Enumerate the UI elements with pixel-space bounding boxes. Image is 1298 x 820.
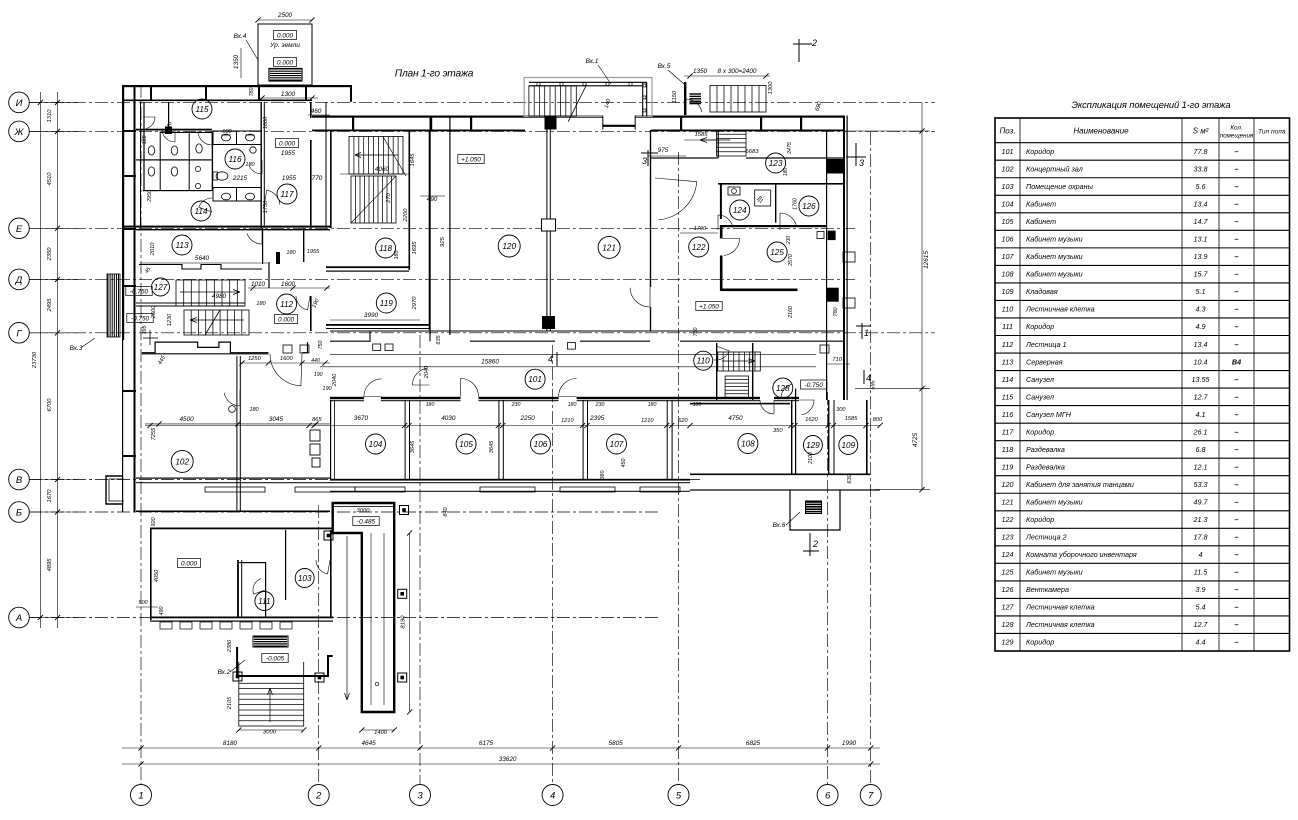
svg-text:4725: 4725	[912, 432, 919, 447]
svg-text:Вх.3: Вх.3	[70, 345, 83, 352]
svg-text:2500: 2500	[151, 305, 157, 319]
svg-text:В: В	[16, 475, 23, 486]
diagonal break	[205, 310, 220, 335]
svg-text:0.000: 0.000	[279, 141, 295, 148]
pier black	[165, 127, 172, 135]
svg-text:15.7: 15.7	[1194, 270, 1209, 279]
svg-text:180: 180	[256, 301, 266, 307]
svg-text:-0.485: -0.485	[357, 519, 376, 526]
divider top column	[545, 116, 557, 130]
svg-text:2100: 2100	[808, 452, 814, 465]
left wall	[150, 528, 152, 621]
svg-text:1600: 1600	[281, 281, 296, 288]
bottom dim chain row2	[122, 763, 880, 765]
door arc 110	[714, 346, 730, 360]
svg-text:–: –	[1235, 480, 1239, 489]
pilasters on top wall	[150, 85, 152, 101]
room 102 left wall (exterior)	[134, 340, 136, 512]
left exterior wall	[122, 85, 124, 340]
divider 106/107	[583, 400, 584, 479]
door arc corridor 101 c	[559, 379, 577, 397]
svg-text:460: 460	[311, 108, 322, 115]
svg-text:595: 595	[871, 379, 877, 389]
halls bottom wall band with steps	[330, 331, 816, 341]
svg-text:1790: 1790	[694, 226, 707, 232]
svg-text:124: 124	[1002, 550, 1014, 559]
svg-text:15860: 15860	[481, 359, 499, 366]
svg-text:0.000: 0.000	[277, 60, 293, 67]
dims 1010/1600	[248, 287, 330, 289]
level -0.750 box	[801, 380, 827, 389]
svg-text:113: 113	[1002, 357, 1013, 366]
svg-text:3645: 3645	[489, 440, 495, 453]
svg-text:–: –	[1235, 235, 1239, 244]
room circle 119	[376, 293, 396, 313]
svg-text:8190: 8190	[401, 615, 407, 629]
wall from 111 to stair	[237, 647, 333, 676]
room 101 circle	[525, 369, 545, 389]
axis line И	[29, 101, 935, 103]
axis line 2	[318, 505, 320, 784]
ramp top landing lines	[333, 505, 394, 508]
svg-text:116: 116	[1002, 410, 1013, 419]
axis line 6	[827, 392, 829, 784]
divider mid box	[542, 219, 556, 231]
classroom windows bottom	[205, 487, 265, 492]
svg-text:270: 270	[386, 192, 392, 203]
svg-text:925: 925	[440, 236, 446, 246]
svg-text:104: 104	[1002, 200, 1014, 209]
corridor bottom wall (classroom top)	[330, 397, 820, 399]
svg-text:4.9: 4.9	[1196, 322, 1206, 331]
room 112 circle	[277, 294, 297, 314]
svg-text:Вх.1: Вх.1	[586, 58, 599, 65]
svg-text:12.1: 12.1	[1194, 462, 1208, 471]
svg-text:6.8: 6.8	[1196, 445, 1206, 454]
svg-text:Поз.: Поз.	[999, 127, 1015, 136]
room 122 circle	[689, 237, 709, 257]
svg-text:5.1: 5.1	[1196, 287, 1206, 296]
stall partition horizontals	[136, 159, 212, 160]
single WC in 116	[216, 172, 228, 180]
svg-text:13.4: 13.4	[1194, 200, 1208, 209]
svg-text:4: 4	[550, 791, 555, 802]
svg-text:2: 2	[811, 38, 817, 48]
svg-text:115: 115	[1002, 392, 1014, 401]
svg-text:–: –	[1235, 620, 1239, 629]
svg-text:Ж: Ж	[14, 127, 25, 138]
Вх.5 entrance mat	[690, 94, 702, 104]
door arc 103	[316, 560, 330, 574]
svg-text:4.1: 4.1	[1196, 410, 1206, 419]
room 111 circle	[255, 592, 274, 611]
classroom top wall door openings (white gaps)	[364, 396, 381, 402]
svg-text:1750: 1750	[263, 200, 269, 213]
svg-text:2570: 2570	[788, 254, 794, 267]
svg-text:Лестничная клетка: Лестничная клетка	[1025, 603, 1095, 612]
svg-text:109: 109	[1002, 287, 1014, 296]
room 126 circle	[799, 196, 819, 216]
svg-text:Кабинет музыки: Кабинет музыки	[1026, 252, 1083, 261]
svg-text:123: 123	[769, 159, 783, 168]
svg-text:112: 112	[280, 300, 293, 309]
svg-text:101: 101	[528, 375, 542, 384]
svg-text:1760: 1760	[793, 198, 799, 210]
svg-text:1955: 1955	[281, 150, 296, 157]
Вх.6 porch walls	[790, 490, 840, 530]
stair Вх.2 treads	[239, 683, 304, 726]
walls around 112	[268, 262, 269, 288]
svg-text:102: 102	[175, 457, 189, 466]
svg-text:2040: 2040	[332, 373, 338, 387]
section mark 4 mid	[556, 352, 558, 366]
svg-text:Ур. земли: Ур. земли	[269, 42, 300, 49]
svg-text:3: 3	[859, 158, 864, 168]
svg-text:180: 180	[245, 162, 255, 168]
svg-text:План 1-го этажа: План 1-го этажа	[395, 69, 474, 80]
toilet room partitions vertical	[143, 102, 144, 191]
sink in 116	[250, 147, 256, 153]
svg-text:11.5: 11.5	[1194, 568, 1208, 577]
axis line Б	[29, 511, 660, 513]
svg-text:230: 230	[786, 236, 792, 246]
axis line Д	[29, 278, 855, 280]
svg-text:В4: В4	[1232, 357, 1241, 366]
wall 124/126 divider	[775, 183, 776, 223]
svg-text:+1.050: +1.050	[461, 157, 481, 164]
svg-text:1955: 1955	[307, 249, 320, 255]
pilasters central top wall	[352, 116, 354, 130]
svg-text:13.55: 13.55	[1192, 375, 1211, 384]
svg-text:Вх.2: Вх.2	[218, 669, 231, 676]
wall right of 113	[262, 228, 263, 264]
level -0.750 box 2	[127, 314, 153, 323]
svg-text:17.8: 17.8	[1194, 533, 1208, 542]
svg-text:Кабинет для занятия танцами: Кабинет для занятия танцами	[1026, 480, 1134, 489]
wall under room 115 (axis Ж)	[136, 129, 212, 131]
shaft boxes right of 102	[310, 430, 320, 441]
svg-text:3645: 3645	[410, 440, 416, 453]
arrow lower flight	[190, 319, 244, 321]
room 119 bottom wall	[326, 324, 430, 326]
svg-text:1250: 1250	[248, 356, 262, 362]
svg-text:–: –	[1235, 340, 1239, 349]
hall left wall	[430, 116, 431, 336]
svg-text:S м²: S м²	[1193, 127, 1209, 136]
bottom wall ticks (windows)	[160, 622, 172, 629]
Вх.5 left wall	[684, 82, 686, 115]
svg-text:–: –	[1235, 568, 1239, 577]
svg-text:2950: 2950	[147, 190, 153, 203]
door arc 125	[723, 239, 740, 256]
right strip boxes	[843, 252, 855, 262]
svg-text:–: –	[1235, 200, 1239, 209]
section mark 3 right	[855, 143, 857, 166]
svg-text:3045: 3045	[269, 416, 284, 423]
svg-text:395: 395	[142, 326, 148, 335]
block top wall (y527)	[150, 528, 333, 530]
svg-text:6: 6	[825, 791, 831, 802]
svg-text:6683: 6683	[746, 149, 760, 155]
level box 0.000 inner	[274, 58, 297, 67]
svg-text:Г: Г	[16, 328, 22, 339]
svg-text:124: 124	[733, 206, 747, 215]
top wall of central block	[312, 116, 843, 118]
svg-text:2105: 2105	[227, 696, 233, 710]
svg-text:–: –	[1235, 550, 1239, 559]
svg-text:630: 630	[847, 473, 853, 483]
bottom dim chain row1	[122, 747, 880, 749]
room 104 left wall	[330, 400, 331, 479]
svg-text:1400: 1400	[374, 730, 388, 736]
svg-text:490: 490	[159, 607, 165, 616]
svg-text:7: 7	[868, 791, 874, 802]
svg-text:2: 2	[315, 791, 322, 802]
svg-text:–: –	[1235, 182, 1239, 191]
svg-text:0.000: 0.000	[278, 317, 294, 324]
svg-text:–: –	[1235, 305, 1239, 314]
room 128 circle	[773, 378, 793, 398]
axis line Е	[29, 227, 855, 229]
porch entrance mat hatch	[270, 69, 301, 80]
axis line 1	[140, 85, 142, 784]
svg-text:128: 128	[776, 384, 790, 393]
svg-text:4645: 4645	[361, 740, 376, 747]
ramp arrows	[346, 536, 348, 700]
svg-text:Наименование: Наименование	[1073, 127, 1129, 136]
left wall pilasters	[122, 130, 136, 132]
divider bottom column	[542, 316, 555, 329]
svg-text:Вх.6: Вх.6	[773, 522, 786, 529]
room 103 circle	[295, 569, 314, 588]
svg-text:–: –	[1235, 147, 1239, 156]
svg-text:–: –	[1235, 270, 1239, 279]
svg-text:105: 105	[1002, 217, 1015, 226]
door arc 111	[253, 579, 265, 594]
svg-text:–: –	[1235, 164, 1239, 173]
svg-text:4510: 4510	[47, 172, 53, 186]
svg-text:122: 122	[1002, 515, 1014, 524]
left chain extension lines	[29, 101, 78, 103]
wall stub 124 left	[720, 183, 722, 219]
svg-text:Лестничная клетка: Лестничная клетка	[1025, 620, 1095, 629]
svg-text:113: 113	[175, 241, 188, 250]
inner wall x=826 right strip	[826, 130, 827, 400]
porch Вх.1 railing right band	[642, 82, 644, 116]
level -0.750 box 1	[126, 287, 152, 296]
svg-text:106: 106	[534, 440, 548, 449]
svg-text:118: 118	[379, 244, 392, 253]
toilets in room 114 left	[148, 146, 154, 155]
svg-text:105: 105	[459, 440, 473, 449]
svg-text:800: 800	[873, 417, 883, 423]
svg-text:Раздевалка: Раздевалка	[1026, 462, 1065, 471]
svg-text:Кабинет: Кабинет	[1026, 200, 1056, 209]
axis line Г	[29, 332, 935, 334]
svg-text:13.4: 13.4	[1194, 340, 1208, 349]
wall segment at 117 right with opening	[310, 102, 312, 118]
room 102 right wall	[236, 356, 237, 512]
svg-text:5.6: 5.6	[1196, 182, 1206, 191]
svg-text:Экспликация помещений 1-го эта: Экспликация помещений 1-го этажа	[1071, 99, 1230, 110]
svg-text:6700: 6700	[47, 398, 53, 412]
black pier marks	[276, 252, 280, 264]
bottom axis circles	[131, 785, 882, 806]
svg-text:980: 980	[222, 129, 232, 135]
svg-text:–: –	[1235, 603, 1239, 612]
svg-text:3670: 3670	[354, 415, 369, 422]
svg-text:21.3: 21.3	[1193, 515, 1208, 524]
rooms 108/129/109 bottom walls	[690, 474, 795, 476]
divider 105/106	[498, 400, 499, 479]
svg-text:Санузел МГН: Санузел МГН	[1026, 410, 1072, 419]
svg-text:2250: 2250	[519, 415, 535, 422]
svg-text:3000: 3000	[357, 508, 371, 514]
svg-text:33.8: 33.8	[1194, 164, 1208, 173]
svg-text:103: 103	[298, 574, 312, 583]
svg-text:23730: 23730	[32, 351, 38, 369]
room 102 zone bottom band (В axis walls)	[136, 478, 330, 479]
svg-text:Кабинет музыки: Кабинет музыки	[1026, 568, 1083, 577]
level -0.485 box	[353, 517, 379, 526]
stair 123 left landing arrow	[700, 139, 730, 141]
svg-text:8180: 8180	[223, 740, 238, 747]
svg-text:5640: 5640	[195, 255, 210, 262]
svg-text:107: 107	[610, 440, 624, 449]
svg-text:Тип пола: Тип пола	[1258, 129, 1286, 136]
svg-text:710: 710	[832, 357, 842, 363]
svg-text:Вх.4: Вх.4	[234, 33, 247, 40]
stairwell walls	[330, 131, 332, 228]
svg-text:840: 840	[443, 506, 449, 516]
left wall inner	[237, 560, 239, 618]
svg-text:Концертный зал: Концертный зал	[1026, 164, 1083, 173]
svg-text:–: –	[1235, 252, 1239, 261]
arrow upper flight	[180, 291, 240, 293]
top extension lines from axes to dims	[28, 101, 30, 103]
svg-text:3000: 3000	[263, 730, 277, 736]
door arc into 102	[270, 354, 302, 386]
svg-text:+1.050: +1.050	[699, 304, 719, 311]
svg-text:4500: 4500	[179, 416, 194, 423]
svg-text:5.4: 5.4	[1196, 603, 1206, 612]
svg-text:1300: 1300	[768, 81, 774, 95]
svg-text:126: 126	[1002, 585, 1014, 594]
stair 127 upper flight	[176, 280, 245, 306]
svg-text:119: 119	[1002, 462, 1013, 471]
section mark 1 right	[861, 323, 863, 339]
svg-text:–: –	[1235, 533, 1239, 542]
left dim chain outer 23730	[39, 92, 41, 628]
svg-text:108: 108	[741, 440, 755, 449]
svg-text:114: 114	[1002, 375, 1013, 384]
corridor window boxes	[373, 344, 381, 351]
svg-text:13.9: 13.9	[1194, 252, 1208, 261]
svg-text:750: 750	[318, 341, 324, 350]
svg-text:104: 104	[369, 440, 383, 449]
svg-text:106: 106	[1002, 235, 1014, 244]
svg-text:126: 126	[802, 202, 816, 211]
svg-text:111: 111	[258, 597, 270, 606]
room 124/126 top wall	[718, 183, 843, 185]
svg-text:128: 128	[1002, 620, 1014, 629]
stairwell flight 2	[351, 176, 396, 223]
stair 128	[725, 376, 749, 397]
svg-text:110: 110	[697, 357, 710, 366]
svg-text:0.000: 0.000	[181, 561, 197, 568]
svg-text:Кладовая: Кладовая	[1026, 287, 1058, 296]
svg-text:1350: 1350	[693, 68, 708, 75]
divider 107/108	[667, 400, 668, 479]
window sill marks corridor	[283, 345, 292, 353]
svg-text:1990: 1990	[842, 740, 857, 747]
svg-text:–: –	[1235, 515, 1239, 524]
Вх.6 mat black	[806, 502, 821, 512]
svg-text:Санузел: Санузел	[1026, 375, 1054, 384]
svg-text:4750: 4750	[728, 415, 743, 422]
bay window left	[106, 476, 122, 504]
svg-text:2970: 2970	[412, 296, 418, 311]
svg-text:180: 180	[286, 250, 296, 256]
divider 129/109	[828, 400, 829, 474]
room 127 circle	[152, 278, 170, 296]
svg-text:920: 920	[151, 516, 157, 526]
svg-text:4050: 4050	[154, 569, 160, 582]
door arc 113	[247, 228, 262, 244]
door arc 124	[718, 215, 733, 230]
svg-text:1310: 1310	[47, 109, 53, 123]
door arc hall 120 left	[413, 368, 430, 385]
room 116 stall bottom block	[213, 188, 261, 202]
svg-text:А: А	[15, 613, 22, 624]
axis line 3	[419, 335, 421, 784]
svg-text:770: 770	[312, 175, 323, 182]
svg-text:13.1: 13.1	[1194, 235, 1208, 244]
svg-text:12.7: 12.7	[1194, 392, 1209, 401]
svg-text:1150: 1150	[672, 90, 678, 103]
svg-text:1585: 1585	[845, 416, 858, 422]
svg-text:1695: 1695	[412, 241, 418, 255]
svg-text:-0.750: -0.750	[130, 289, 149, 296]
svg-text:Раздевалка: Раздевалка	[1026, 445, 1065, 454]
right wall of 109	[866, 400, 868, 474]
room circle 118	[376, 238, 396, 258]
sink in 124	[728, 187, 740, 195]
svg-text:107: 107	[1002, 252, 1015, 261]
door arc corridor 101 a	[364, 379, 382, 397]
left axis circles	[9, 92, 30, 628]
svg-text:490: 490	[427, 196, 438, 203]
svg-text:–: –	[1235, 427, 1239, 436]
svg-text:3990: 3990	[364, 312, 379, 319]
stairwell flight 1 (4060)	[349, 137, 403, 175]
svg-text:230: 230	[595, 402, 605, 408]
svg-text:1600: 1600	[280, 356, 294, 362]
svg-text:2200: 2200	[403, 208, 409, 223]
svg-text:–: –	[1235, 392, 1239, 401]
top exterior wall of NW block	[122, 85, 352, 87]
svg-text:1: 1	[138, 791, 143, 802]
dim 8x300=2400	[684, 75, 770, 77]
svg-text:4.4: 4.4	[1196, 638, 1206, 647]
svg-text:12615: 12615	[923, 251, 930, 269]
svg-text:115: 115	[195, 105, 208, 114]
svg-text:112: 112	[1002, 340, 1013, 349]
svg-text:116: 116	[228, 155, 241, 164]
svg-text:4: 4	[548, 354, 553, 364]
svg-text:1670: 1670	[47, 489, 53, 503]
svg-text:117: 117	[1002, 427, 1014, 436]
